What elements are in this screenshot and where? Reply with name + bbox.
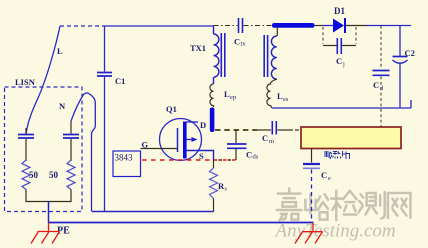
capacitor Cj wires	[323, 45, 356, 47]
Q1 source wire	[187, 151, 214, 161]
svg-text:es: es	[283, 96, 289, 103]
capacitor LISN-1 plates	[18, 135, 34, 139]
capacitor Ce dashed wire to ground	[311, 170, 313, 223]
watermark 峪	[305, 194, 328, 219]
svg-text:j: j	[342, 61, 345, 68]
svg-text:C1: C1	[115, 76, 125, 86]
LISN dashed box	[5, 87, 83, 212]
mixed dashed S to Cds	[214, 159, 236, 161]
capacitor Cds branch	[235, 130, 237, 143]
capacitor C2 top wire	[399, 26, 401, 56]
resistor 50 (left) zigzag	[22, 160, 30, 190]
svg-text:ds: ds	[253, 154, 259, 161]
watermark 检	[331, 191, 356, 220]
capacitor Cd dashed branch bottom	[380, 77, 382, 128]
node D thick drain stub	[210, 108, 215, 133]
black dashed noise path (drain row)	[215, 129, 258, 131]
svg-text:C: C	[336, 56, 342, 66]
svg-text:50: 50	[29, 170, 39, 180]
svg-text:AnyTesting.com: AnyTesting.com	[274, 221, 396, 242]
top rail	[105, 25, 214, 27]
wire Cm to heatsink	[278, 129, 294, 131]
capacitor LISN-2 top wire	[70, 121, 72, 134]
label 散热片	[324, 151, 350, 159]
capacitor C2 bottom wire	[399, 64, 401, 108]
capacitor C1 plates	[97, 73, 112, 77]
Q1 arrow	[187, 139, 194, 141]
gate wire	[141, 148, 178, 150]
Q1 channel bar	[183, 122, 187, 159]
capacitor Cj plates	[337, 38, 341, 54]
wire N arch	[71, 93, 95, 212]
ground (right)	[295, 223, 323, 244]
svg-text:Q1: Q1	[166, 104, 177, 114]
capacitor Cj dashed branch left	[322, 27, 324, 44]
capacitor LISN-2 bottom wire	[70, 139, 72, 161]
TX1 secondary winding	[271, 36, 276, 79]
ground (left, PE)	[31, 223, 60, 244]
capacitor Cds bottom wire	[235, 149, 237, 160]
output return rail	[272, 100, 411, 108]
heatsink box	[301, 127, 401, 149]
svg-text:3843: 3843	[115, 153, 134, 163]
svg-text:tx: tx	[241, 41, 247, 48]
svg-text:C: C	[234, 37, 240, 47]
watermark 网	[388, 193, 411, 218]
diode D1	[333, 19, 344, 33]
TX1 core (primary side)	[221, 33, 225, 77]
svg-text:C: C	[373, 80, 379, 90]
watermark 嘉	[277, 189, 302, 221]
wire secondary top corner	[276, 27, 278, 36]
resistor Rs zigzag	[210, 168, 218, 198]
svg-text:D1: D1	[334, 6, 345, 16]
wire diode to rail	[346, 25, 366, 27]
wire bar to diode	[315, 25, 324, 27]
svg-text:C: C	[321, 170, 327, 180]
capacitor Cds plates	[227, 144, 247, 148]
svg-text:L: L	[57, 46, 63, 56]
inductor Lep (primary leakage)	[210, 84, 214, 107]
wire S to Rs	[213, 160, 215, 168]
capacitor Cm plates	[272, 121, 276, 135]
capacitor LISN-1 bottom wire	[25, 139, 27, 161]
svg-text:C: C	[262, 133, 268, 143]
svg-text:TX1: TX1	[190, 43, 206, 53]
svg-text:m: m	[269, 138, 274, 145]
capacitor Ctx plates	[239, 18, 243, 33]
capacitor C1 branch wire	[104, 26, 106, 212]
wire to Cm	[258, 129, 271, 131]
capacitor Ce plates	[303, 163, 320, 165]
capacitor Cj dashed branch right	[355, 27, 357, 44]
capacitor Ce wire	[311, 149, 313, 163]
svg-text:D: D	[200, 120, 206, 130]
primary return rail	[92, 211, 214, 213]
svg-text:N: N	[59, 101, 66, 111]
Q1 drain stub inside	[187, 121, 198, 123]
capacitor C2 plates	[393, 56, 408, 58]
svg-text:C: C	[246, 150, 252, 160]
wire L curve into LISN	[26, 26, 60, 134]
wire LISN centre tap to PE	[48, 202, 50, 223]
capacitor Ctx wire (dash-dot left)	[214, 25, 238, 27]
svg-text:ep: ep	[230, 94, 236, 101]
resistor 50 (right) zigzag	[67, 160, 75, 190]
svg-text:LISN: LISN	[15, 77, 36, 87]
TX1 primary winding	[214, 26, 219, 84]
thick node bar (secondary hot trace)	[272, 23, 315, 28]
capacitor LISN-1 top wire	[25, 128, 27, 134]
capacitor Cd plates	[373, 71, 390, 76]
wire resistor bottoms join	[26, 190, 71, 202]
transistor Q1 circle	[160, 119, 202, 161]
red dashed noise path (gate row)	[142, 159, 212, 161]
Q1 gate plate	[177, 128, 179, 152]
svg-text:50: 50	[49, 170, 59, 180]
inductor Les (secondary leakage)	[267, 79, 277, 108]
IC 3843 box	[113, 151, 141, 177]
mains L dashed wire top	[60, 25, 105, 27]
PE rail	[49, 222, 314, 224]
TX1 core (secondary side)	[264, 35, 267, 77]
svg-text:C2: C2	[405, 48, 415, 58]
svg-text:e: e	[328, 175, 331, 182]
watermark 测	[359, 192, 385, 219]
capacitor LISN-2 plates	[63, 135, 79, 139]
capacitor Cd dashed branch top	[380, 26, 382, 69]
capacitor Ctx wire (dash-dot right)	[244, 25, 273, 27]
wire Rs to rail	[213, 198, 215, 211]
